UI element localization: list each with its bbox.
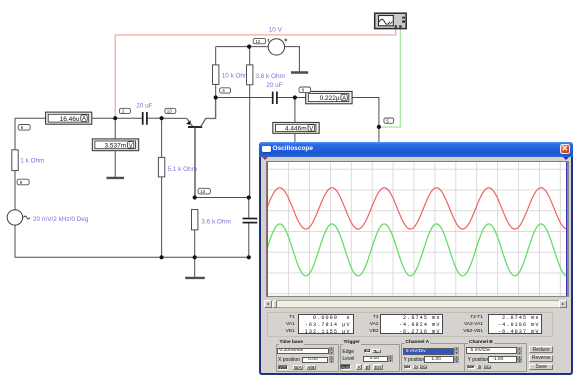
node 12 label box [253,38,265,44]
Trigger button A [356,364,362,370]
junction node 13 [160,116,164,120]
ammeter M1 16.46u A [46,112,92,124]
Channel B scale combo 5 mV/Div [466,347,518,354]
Save button [529,364,553,371]
wire node 2 down to voltmeter M2 [114,118,116,139]
readout label VA1 [270,322,295,327]
Reduce button [529,346,553,353]
oscilloscope cursor 2 marker triangle [563,157,569,160]
Channel B group label [468,341,494,346]
wire input top left horizontal from source loop to ammeter M1 [15,117,46,119]
Channel A scale combo 5 mV/Div selected [403,348,454,355]
oscilloscope window icon [262,146,271,153]
voltmeter M2 3.537m V [92,139,138,151]
Trigger falling edge button [372,349,381,354]
wire collector node 4 to output capacitor C2 [216,97,272,99]
readout panel outline [267,312,553,338]
svg-text:12: 12 [255,39,261,44]
readout value box 1 [298,314,354,334]
Time base X position spinner [329,356,334,363]
Channel A Y position value box [424,356,454,363]
junction ground rail at R4 [160,255,164,259]
junction node 5 scope tap [377,125,381,129]
readout box2 line T2 [381,315,441,321]
wire node 8 junction down to voltmeter M4 [294,98,296,123]
Time base scale combo 0.20ms/div [277,348,329,355]
value label V1 20 mV/2 kHz/0 Deg [33,216,89,223]
wire bypass capacitor C3 top lead [248,198,250,219]
junction node 10 emitter [193,195,197,199]
readout label T1 [270,315,295,320]
readout box2 line VB2 [381,329,441,335]
resistor R2 10k [213,65,219,85]
svg-text:10: 10 [200,189,206,194]
wire emitter node 10 horizontal to bypass capacitor C3 branch [195,197,249,199]
readout label T2 [353,315,379,320]
Trigger button Ext [373,364,383,370]
readout label T2-T1 [455,315,483,320]
cursor 1 red line [266,162,268,296]
wire ammeter M3 output right and down to node 5 [352,98,379,144]
Time base X position label [278,357,300,363]
Time base button B/A [293,365,303,371]
Channel A button AC pressed [404,365,411,370]
node 2 label box [119,108,130,113]
Channel B scale spinner [517,347,522,355]
svg-text:A: A [82,117,86,123]
scrollbar right arrow glyph [562,303,564,305]
value label C1 20 uF [136,102,152,109]
wire node 13 to transistor Q1 emitter lead [162,117,187,119]
svg-text:1 k Ohm: 1 k Ohm [20,158,44,165]
wire resistor R3 bottom lead down to node 10 rail (crosses collector wire) [249,85,251,198]
svg-text:V: V [309,126,313,132]
readout box3 line VB2-VB1 [489,329,540,335]
svg-text:V: V [129,143,133,149]
green oscilloscope channel B probe wire from scope icon to node 5 [380,29,401,127]
readout label VB2 [353,329,379,334]
wire ground stub below emitter rail [194,257,196,277]
svg-text:20 mV/2 kHz/0 Deg: 20 mV/2 kHz/0 Deg [33,216,89,223]
value label R4 5.1 k Ohm [168,166,197,173]
node 10 label box [198,188,210,194]
svg-text:0.222µ: 0.222µ [320,95,340,102]
red oscilloscope channel A probe wire from scope icon to node 2 [115,29,396,118]
oscilloscope horizontal scrollbar track [264,300,567,308]
value label R1 1 k Ohm [20,158,44,165]
Trigger Level label [342,356,354,362]
oscilloscope window close button [560,144,571,154]
value label R2 10 k Ohm [222,73,250,80]
wire resistor R2 leads [215,47,217,98]
svg-text:16.46u: 16.46u [60,116,80,123]
oscilloscope window title bar [259,142,573,156]
resistor R3 3.6k [247,65,253,85]
resistor R4 5.1k [158,157,164,177]
Channel B Y position spinner [517,356,522,363]
readout label VB1 [270,329,295,334]
ammeter M3 0.222u A [306,91,352,103]
value label R3 3.6 k Ohm [255,73,284,80]
junction node 2 [113,116,117,120]
oscilloscope instrument icon XSC1 [375,13,407,28]
readout box3 line T2-T1 [489,315,540,321]
svg-text:3.537m: 3.537m [105,143,127,150]
Trigger rising edge glyph [364,350,370,353]
Channel A Y position label [404,357,426,363]
svg-text:13: 13 [167,109,173,114]
svg-text:3.6 k Ohm: 3.6 k Ohm [255,73,284,80]
wire resistor R4 bottom to ground rail [161,177,163,257]
wire capacitor C2 to node 8 junction [277,97,295,99]
svg-text:10 V: 10 V [269,27,283,34]
Trigger group label [343,341,361,346]
wire voltmeter M4 bottom hidden behind oscilloscope window [294,133,296,143]
channel A red waveform [267,187,566,228]
Channel B Y position value box [488,356,517,363]
Time base group label [279,341,304,346]
readout box1 line VA1 [299,322,351,328]
ground symbol for source V2 [291,71,308,73]
wire node 13 down to resistor R4 [161,118,163,157]
readout box2 line VA2 [381,322,441,328]
junction 10V rail at R3 [247,45,251,49]
readout value box 2 [380,314,443,334]
Trigger button B [364,364,370,370]
channel B green waveform [267,224,566,276]
svg-text:4.446m: 4.446m [285,125,307,132]
wire node 8 to ammeter M3 [295,97,306,99]
wire bypass capacitor C3 bottom lead to ground rail [248,223,250,257]
wire 10V rail from resistor R2 top to source V2 and ground [216,47,300,72]
Channel A Y position spinner [454,356,459,363]
node 9 label box [17,179,29,185]
readout box1 line T1 [299,315,351,321]
capacitor C1 20uF input coupling [143,112,147,125]
svg-text:20 uF: 20 uF [136,102,152,109]
wire left loop: down from input, AC source V1 in series, bottom rail to bypass cap [15,118,249,257]
readout box1 line VB1 [299,329,351,335]
Time base group box [276,344,339,372]
Channel A group label [405,341,431,346]
Trigger Level spinner [388,355,393,362]
oscilloscope window title text [273,145,313,152]
junction ground rail at R5 [193,255,197,259]
svg-text:3.6 k Ohm: 3.6 k Ohm [201,218,230,225]
wire voltmeter M2 to ground [114,151,116,178]
scrollbar right arrow button [559,300,567,308]
Time base scale spinner [329,347,334,355]
svg-text:5.1 k Ohm: 5.1 k Ohm [168,166,197,173]
node 5 label box [384,118,394,123]
node 6 label box [18,125,30,131]
scrollbar thumb [273,300,277,308]
junction node 8 [293,95,297,99]
node 8 label box [299,87,311,93]
resistor R1 1k [12,150,18,171]
capacitor C3 bypass [243,219,258,223]
scrollbar left arrow glyph [267,303,269,305]
wire resistor R5 bottom to ground rail [194,230,196,257]
Channel A button 0 [413,365,418,370]
junction ground rail at C3 [247,255,251,259]
readout label VB2-VB1 [455,329,483,334]
Channel B button AC pressed [467,365,475,370]
capacitor C2 20uF output coupling [273,92,277,104]
svg-text:20 uF: 20 uF [266,82,282,89]
wire ammeter M1 output to node 2 junction and capacitor C1 [92,117,142,119]
Time base button A/B [306,365,316,371]
wire resistor R3 top lead from rail [249,47,251,65]
Time base button Y/T pressed [278,365,288,371]
cursor 2 blue line [566,162,568,296]
value label C2 20 uF [266,82,282,89]
Channel A scale spinner [454,347,459,355]
Trigger falling edge glyph [373,350,379,353]
Time base X position value box [302,357,328,364]
Trigger rising edge button pressed [364,349,371,354]
Channel B Y position label [468,357,490,363]
Channel B group box [464,343,527,372]
Channel A group box [401,343,465,372]
oscilloscope cursor 1 marker triangle [262,157,268,160]
readout box3 line VA2-VA1 [489,322,540,328]
Trigger Level value box [363,356,388,363]
transistor Q1 [186,98,215,198]
ground symbol below voltmeter M2 [107,177,125,179]
Trigger group box [340,344,400,372]
readout label VA2 [353,322,379,327]
Trigger Edge label [342,349,354,355]
voltmeter M4 4.446m V [273,122,319,133]
junction node 10 at bypass branch [247,195,251,199]
scrollbar left arrow button [264,300,272,308]
AC source V1 [7,210,30,225]
resistor R5 3.6k emitter [192,210,198,230]
value label V2 10 V [269,27,283,34]
DC source V2 10V [268,39,287,56]
oscilloscope window frame [259,142,573,375]
Channel A button DC [419,365,427,370]
Trigger button Auto pressed [340,364,351,370]
svg-text:10 k Ohm: 10 k Ohm [222,73,250,80]
value label R5 3.6 k Ohm [201,218,230,225]
Reverse button [529,355,553,362]
wire capacitor C1 right plate to node 13 junction [147,117,161,119]
ground symbol below emitter ground rail [185,277,205,279]
oscilloscope display screen with grid and waveforms [266,161,569,297]
readout label VA2-VA1 [455,322,483,327]
junction node 4 collector [214,95,218,99]
node 4 label box [220,88,231,93]
Channel B button DC [483,365,491,370]
node 13 label box [165,108,176,113]
readout value box 3 [488,314,543,334]
svg-text:A: A [342,96,346,102]
Channel B button 0 [477,365,482,370]
